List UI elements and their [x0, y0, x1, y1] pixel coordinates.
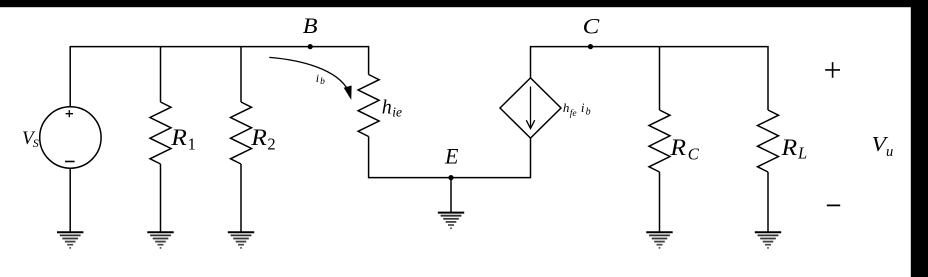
resistor RC: [649, 110, 670, 172]
node B: [308, 44, 313, 49]
ground below E: [438, 213, 464, 230]
ground below VS: [57, 232, 83, 249]
svg-text:u: u: [886, 144, 893, 160]
current arrow ib: [269, 57, 351, 98]
resistor RL: [758, 110, 779, 172]
wire: RL bottom lead: [767, 172, 769, 232]
label hfe ib: [563, 100, 591, 119]
label ib: [316, 71, 325, 87]
node E: [448, 175, 453, 180]
svg-text:B: B: [303, 13, 318, 38]
svg-text:b: b: [320, 77, 325, 87]
svg-text:R: R: [170, 125, 187, 150]
resistor hie: [358, 75, 379, 137]
wire: emitter rail: [369, 137, 531, 178]
ground below R1: [147, 232, 173, 249]
node C: [588, 44, 593, 49]
wire: R1 top lead: [160, 47, 162, 102]
svg-text:h: h: [563, 100, 570, 115]
svg-text:E: E: [444, 143, 459, 168]
svg-text:b: b: [586, 106, 591, 117]
resistor R2: [231, 102, 252, 164]
svg-text:fe: fe: [570, 108, 577, 119]
label VS: [22, 128, 39, 150]
wire: RC top lead: [659, 47, 661, 110]
svg-text:h: h: [382, 97, 392, 119]
wire: R2 bottom lead: [240, 164, 242, 232]
label RL: [780, 135, 807, 163]
label Vu: [872, 132, 894, 160]
svg-text:1: 1: [188, 135, 196, 154]
wire: right top rail: [531, 47, 769, 110]
top black border bar: [0, 0, 928, 7]
svg-text:R: R: [669, 135, 686, 160]
ground below RL: [755, 232, 781, 249]
right black border bar: [911, 0, 928, 277]
wire: RC bottom lead: [659, 172, 661, 232]
label RC: [669, 135, 700, 164]
svg-text:C: C: [583, 14, 600, 39]
svg-text:R: R: [780, 135, 797, 160]
output minus sign: [827, 204, 840, 206]
wire: E ground stub: [450, 178, 452, 213]
label R2: [250, 125, 275, 154]
svg-text:R: R: [250, 125, 267, 150]
svg-text:i: i: [581, 100, 585, 115]
svg-text:2: 2: [267, 135, 275, 154]
label hie: [382, 97, 402, 120]
dependent current source hfe*ib (diamond): [500, 78, 561, 138]
voltage source VS: [40, 107, 101, 168]
output plus sign: [825, 62, 840, 78]
svg-text:i: i: [316, 71, 319, 85]
wire: left top rail: [70, 47, 368, 107]
label R1: [170, 125, 196, 154]
wire: R1 bottom lead: [160, 164, 162, 232]
svg-text:S: S: [33, 136, 39, 150]
svg-text:ie: ie: [392, 104, 402, 119]
svg-text:C: C: [688, 145, 700, 164]
wire: R2 top lead: [240, 47, 242, 102]
resistor R1: [150, 102, 171, 164]
svg-text:L: L: [797, 144, 807, 163]
ground below RC: [646, 232, 672, 249]
ground below R2: [228, 232, 254, 249]
wire: VS bottom lead: [69, 168, 71, 232]
